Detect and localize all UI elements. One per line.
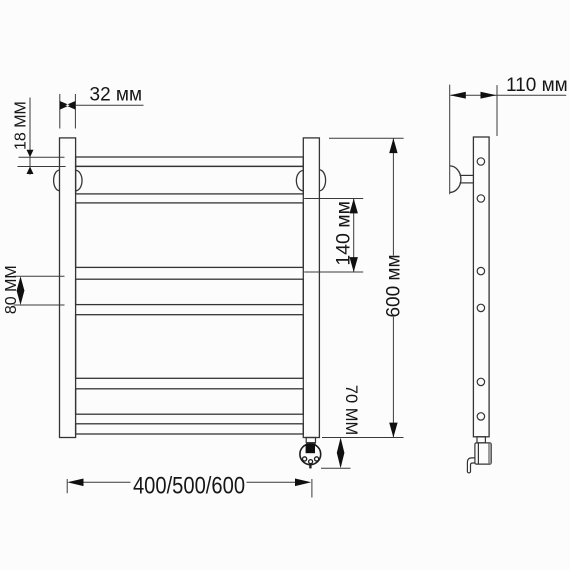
140mm lower extension line — [304, 271, 363, 273]
hole 1 — [477, 158, 484, 165]
element black plug block — [306, 444, 315, 453]
rail 2 (thick top bar with round caps) — [76, 166, 304, 194]
32mm left extension line — [59, 94, 61, 129]
hole 2 — [477, 195, 484, 202]
70mm diamond arrow — [337, 438, 345, 469]
hole 3 — [477, 267, 484, 274]
side element body — [475, 443, 491, 464]
rail 4 (short rail 80mm) — [76, 279, 304, 304]
plug pin middle — [309, 460, 313, 464]
140mm dimension line — [353, 199, 355, 273]
140mm arrowheads — [350, 199, 358, 273]
110mm dimension line — [451, 94, 567, 96]
18mm upper extension line — [19, 156, 65, 158]
600mm dimension line upper segment — [392, 138, 394, 255]
svg-text:32 мм: 32 мм — [90, 85, 143, 106]
bracket stem upper line — [460, 174, 474, 176]
110mm right arrowhead — [481, 92, 497, 99]
side element cable inner bend — [471, 463, 475, 472]
bottom dim line left segment — [82, 481, 131, 483]
heating element (front view, bottom of right post) — [300, 438, 321, 469]
side element gray band — [488, 443, 491, 463]
bottom dim arrowheads — [67, 479, 311, 487]
hole 4 — [477, 304, 484, 311]
element collar dark band — [306, 442, 316, 444]
side element neck — [477, 437, 485, 443]
70mm lower extension line — [321, 467, 351, 469]
600mm dimension line lower segment — [392, 317, 394, 438]
right post — [303, 138, 319, 438]
element bottom stem — [309, 465, 311, 469]
rail 2 right inner arc — [296, 171, 303, 191]
svg-text:110 мм: 110 мм — [506, 75, 568, 96]
svg-text:140 мм: 140 мм — [333, 201, 355, 266]
18mm leader vertical line — [29, 98, 31, 175]
rail 2 left outer cap arc — [54, 170, 60, 191]
rail 1 (top thin rail 18mm) — [76, 157, 304, 166]
80mm diamond arrow — [17, 276, 25, 305]
bottom dim line right segment — [247, 481, 297, 483]
element body circle — [300, 444, 321, 465]
hole 6 — [477, 413, 484, 420]
left post — [60, 138, 76, 438]
element neck — [306, 438, 315, 443]
rail 2 right outer cap arc — [319, 170, 325, 191]
hole 5 — [477, 378, 484, 385]
bracket stem lower line — [460, 182, 474, 184]
32mm leader line — [75, 104, 143, 106]
rail 5 (wide panel) — [76, 315, 304, 379]
rail 3 (wide panel) — [76, 203, 304, 268]
svg-text:70 ММ: 70 ММ — [342, 385, 360, 435]
rail 7 (bottom rail) — [76, 424, 304, 434]
600mm top extension line — [329, 137, 404, 139]
svg-text:18 ММ: 18 ММ — [12, 101, 29, 150]
bottom dim left extension line — [66, 479, 68, 493]
80mm lower extension line — [14, 304, 65, 306]
rail 2 left inner arc — [76, 170, 82, 191]
side bar — [473, 137, 489, 437]
32mm bowtie arrows — [60, 101, 76, 110]
side element inner left line — [477, 443, 479, 464]
80mm upper extension line — [14, 275, 65, 277]
140mm upper extension line — [304, 198, 363, 200]
side element cable end cap — [467, 471, 470, 474]
wall line — [449, 85, 451, 195]
plug pin left — [303, 457, 307, 461]
svg-text:600 мм: 600 мм — [383, 254, 404, 317]
bottom dim right extension line — [311, 479, 313, 498]
70mm upper extension line (shared with 600mm bottom) — [322, 437, 404, 439]
110mm right extension line — [496, 85, 498, 136]
110mm left arrowhead — [450, 92, 466, 99]
plug pin right — [315, 457, 319, 461]
side element cable outer bend — [467, 458, 475, 472]
wall bracket (half disc) — [450, 166, 461, 193]
18mm lower extension line — [18, 166, 66, 168]
18mm arrowheads — [27, 150, 34, 174]
svg-text:400/500/600: 400/500/600 — [133, 472, 245, 499]
svg-text:80 ММ: 80 ММ — [3, 265, 20, 314]
32mm right extension line — [74, 94, 76, 129]
600mm arrowheads — [389, 138, 397, 437]
rail 6 (short rail) — [76, 389, 304, 414]
